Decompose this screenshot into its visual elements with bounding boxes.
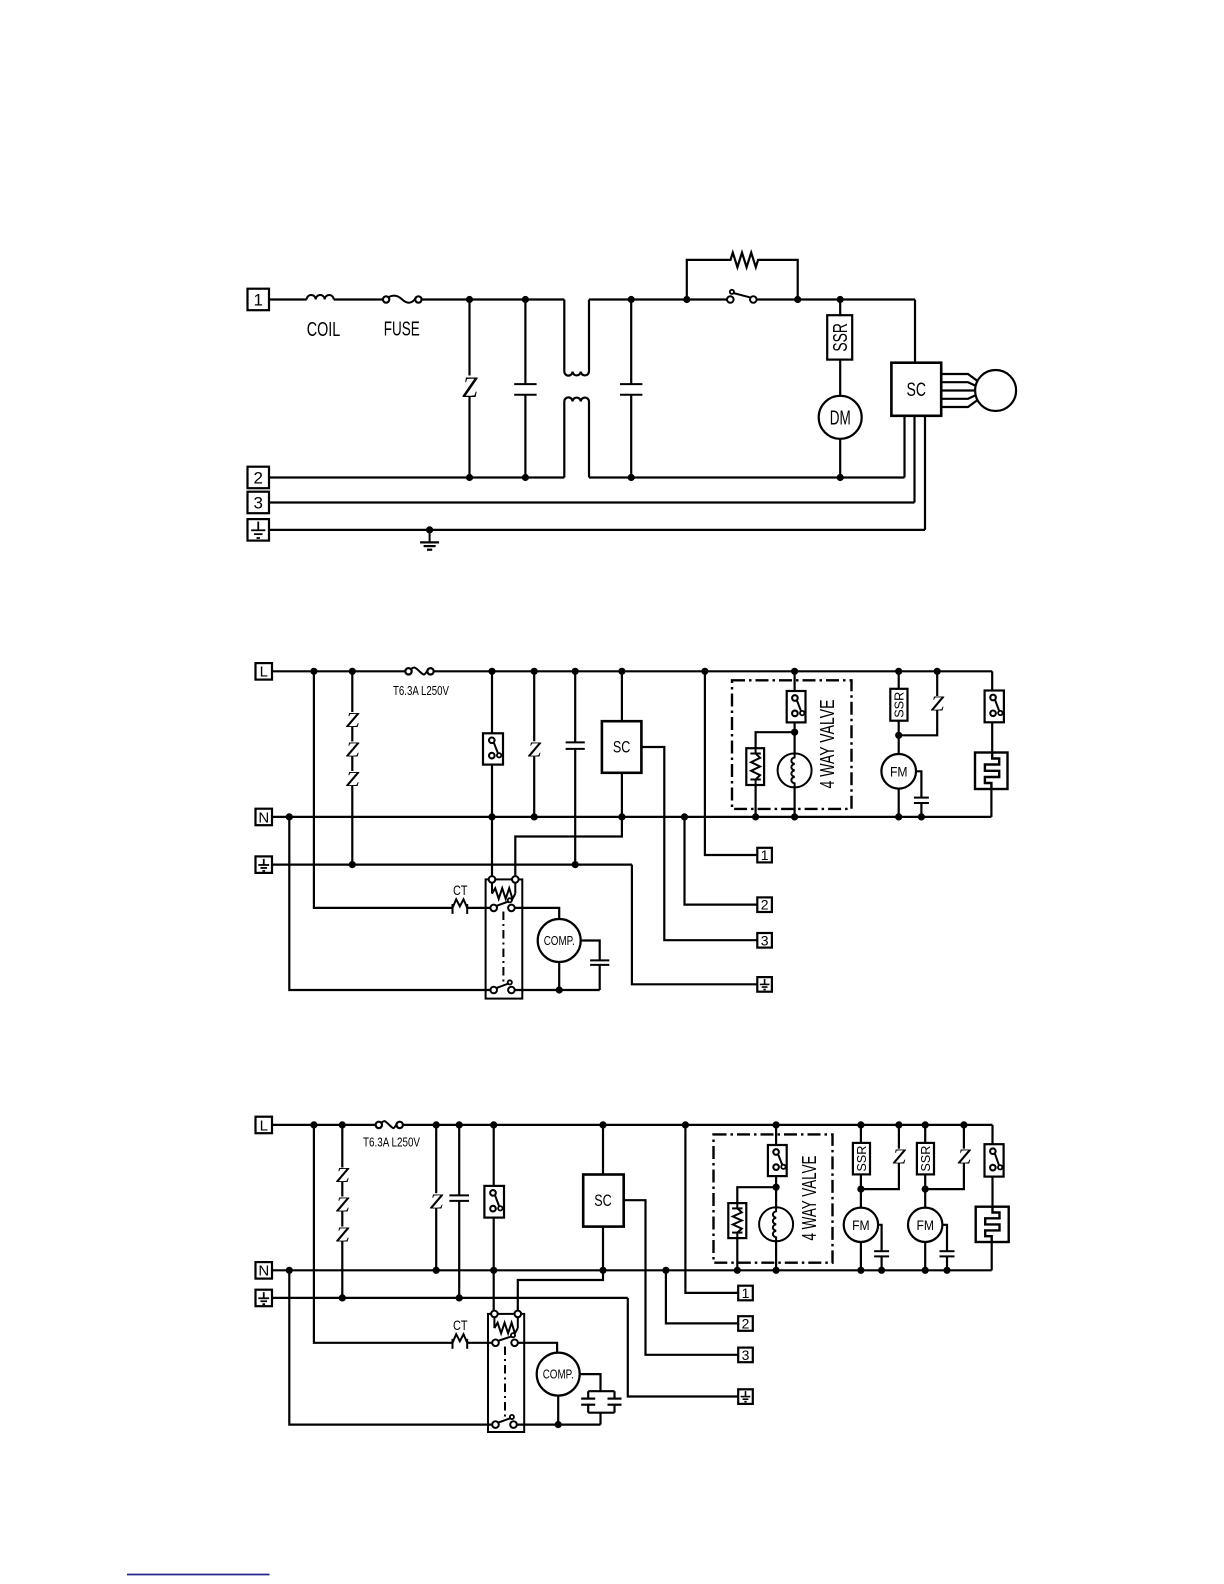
compressor capacitor plates	[590, 960, 609, 965]
svg-text:SSR: SSR	[830, 323, 852, 352]
valve resistor (middle)	[746, 748, 764, 785]
capacitor leads (middle)	[574, 671, 576, 864]
wire line 2 right of choke	[589, 476, 905, 478]
svg-text:4 WAY VALVE: 4 WAY VALVE	[817, 700, 839, 789]
svg-text:Z: Z	[336, 1193, 350, 1217]
varistor Z leads (middle)	[533, 671, 535, 817]
junction dot L at thermostat (bottom)	[490, 1121, 497, 1128]
valve resistor link wire	[756, 732, 795, 748]
junction dot thermostat at N (bottom)	[490, 1267, 497, 1274]
svg-text:SSR: SSR	[892, 692, 907, 718]
SC pin to line 3	[913, 416, 915, 503]
N bus wire (middle)	[272, 816, 991, 818]
varistor chain lead segments (bottom)	[341, 1125, 343, 1298]
SSR 2 (bottom)	[917, 1143, 934, 1175]
wire line 2 left of choke	[269, 476, 564, 478]
junction dot valve resistor at N	[752, 813, 759, 820]
compressor to return	[558, 962, 560, 990]
N bus wire (bottom)	[272, 1269, 992, 1271]
junction dot L at varistor Z right	[934, 668, 941, 675]
relay main contact (middle)	[490, 898, 514, 911]
svg-text:1: 1	[742, 1285, 750, 1301]
svg-text:DM: DM	[830, 407, 851, 429]
junction dot varistor bottom	[466, 474, 473, 481]
earth ground symbol	[420, 530, 439, 550]
junction dot FM1 at N	[857, 1267, 864, 1274]
stub terminal earth (middle)	[757, 977, 772, 992]
capacitor C2 leads	[630, 300, 632, 478]
junction dot FM at N	[895, 813, 902, 820]
choke lower winding	[564, 397, 589, 477]
capacitor plates (middle)	[566, 742, 585, 749]
svg-text:SC: SC	[613, 738, 631, 757]
terminal N (middle section)	[256, 809, 273, 827]
valve switch feed from L	[793, 671, 795, 691]
current transformer CT (middle)	[453, 899, 468, 914]
svg-text:FM: FM	[916, 1217, 934, 1233]
junction dot capacitor C2 top	[628, 296, 635, 303]
valve resistor to N (bottom)	[736, 1238, 738, 1270]
varistor chain lead segments	[351, 671, 353, 864]
svg-text:Z: Z	[346, 767, 360, 791]
junction dot capacitor at earth (bottom)	[456, 1294, 463, 1301]
SC bottom to N (middle)	[621, 773, 623, 817]
svg-text:Z: Z	[462, 371, 478, 404]
SSR 1 (bottom)	[853, 1143, 870, 1175]
valve solenoid coil (middle)	[778, 753, 812, 787]
SC right wire to terminal 3 stub (bottom)	[624, 1200, 739, 1355]
relay linkage dash-dot (middle)	[502, 912, 504, 986]
heater switch to heater box	[991, 722, 993, 752]
relay return wire left (middle)	[289, 817, 490, 990]
current transformer CT (bottom)	[453, 1334, 468, 1349]
svg-text:T6.3A L250V: T6.3A L250V	[393, 683, 449, 698]
heater to N end (middle)	[990, 789, 992, 817]
earth bus wire (middle)	[272, 863, 632, 865]
valve switch (bottom)	[768, 1145, 787, 1176]
junction dot SSR-FM-Z	[895, 732, 902, 739]
junction dot L at CT feed	[310, 668, 317, 675]
svg-text:Z: Z	[336, 1222, 350, 1246]
terminal earth (middle section)	[256, 856, 273, 873]
terminal 2 (top section)	[248, 467, 270, 489]
SSR (middle)	[890, 689, 907, 721]
junction dot varistor Z1 at N (bottom)	[433, 1267, 440, 1274]
svg-text:Z: Z	[346, 708, 360, 732]
CT wire into relay	[467, 907, 490, 909]
terminal 3 (top section)	[248, 492, 270, 514]
junction dot DM at line 2	[837, 474, 844, 481]
relay box (bottom)	[488, 1314, 524, 1432]
svg-text:2: 2	[742, 1316, 750, 1332]
junction dot at bypass left	[683, 296, 690, 303]
compressor COMP. (bottom)	[537, 1353, 580, 1396]
relay box (middle)	[486, 879, 523, 998]
svg-text:4 WAY VALVE: 4 WAY VALVE	[799, 1156, 821, 1241]
svg-text:1: 1	[254, 291, 263, 310]
junction dot N at relay return (bottom)	[286, 1267, 293, 1274]
heater element (middle)	[975, 753, 1008, 790]
relay right contact riser to N (bottom)	[518, 1270, 603, 1310]
relay coil and top contacts (middle)	[489, 876, 519, 899]
FM to N (middle)	[898, 789, 900, 817]
junction dot at bypass right	[794, 296, 801, 303]
junction dot FM2 at N	[922, 1267, 929, 1274]
relay lower contact (bottom)	[492, 1415, 517, 1428]
compressor capacitor wire	[581, 941, 600, 991]
fan motor (top section)	[975, 370, 1016, 411]
stub terminal 2 (middle)	[757, 897, 772, 913]
SC box (bottom)	[583, 1175, 624, 1227]
junction dot at capacitor C1 top	[522, 296, 529, 303]
svg-text:1: 1	[761, 847, 769, 863]
FM capacitor plates (middle)	[914, 798, 929, 803]
fuse T6.3A L250V (bottom)	[376, 1121, 403, 1128]
CT feed wire from L (bottom)	[314, 1125, 453, 1343]
svg-text:L: L	[260, 1117, 268, 1134]
svg-text:CT: CT	[453, 1317, 468, 1333]
junction dot L at SC	[618, 668, 625, 675]
SC bottom to N (bottom)	[602, 1227, 604, 1271]
fan motor FM 2 (bottom)	[908, 1208, 942, 1242]
fuse F1 (top section)	[383, 296, 422, 303]
4 way valve enclosure dash-dot box (bottom)	[714, 1134, 833, 1262]
junction dot terminal-2 feed at N (bottom)	[662, 1267, 669, 1274]
FM2 capacitor plates	[940, 1251, 955, 1256]
junction dot valve resistor at N (bottom)	[734, 1267, 741, 1274]
svg-text:Z: Z	[957, 1144, 971, 1168]
SSR U1 (top section)	[827, 315, 852, 359]
thermostat switch TH (middle)	[483, 733, 503, 764]
L corner down to heater switch (middle)	[991, 671, 993, 690]
heater element (bottom)	[976, 1207, 1009, 1242]
capacitor C1 leads	[524, 300, 526, 478]
capacitor leads (bottom)	[458, 1125, 460, 1298]
FM1 to N (bottom)	[860, 1242, 862, 1270]
junction dot thermostat at N	[488, 813, 495, 820]
terminal 1 feed wire (middle)	[705, 671, 757, 855]
stub terminal 3 (middle)	[757, 932, 772, 948]
FM2 to N (bottom)	[924, 1242, 926, 1270]
relay lower contact (middle)	[490, 980, 514, 993]
junction dot L at terminal-1 feed	[701, 668, 708, 675]
svg-text:CT: CT	[453, 882, 468, 898]
return wire to capacitor (bottom)	[517, 1423, 601, 1425]
valve switch to coil (bottom)	[775, 1176, 777, 1207]
valve resistor to N	[754, 785, 756, 817]
svg-text:SC: SC	[594, 1191, 612, 1210]
valve resistor link wire (bottom)	[737, 1187, 776, 1203]
wire coil to fuse	[334, 298, 384, 300]
earth stub feed (bottom)	[628, 1298, 738, 1397]
earth bus wire (bottom)	[272, 1297, 628, 1299]
junction dot capacitor C2 bottom	[628, 474, 635, 481]
junction dot L at SSR1 (bottom)	[857, 1121, 864, 1128]
SSR2 to FM2	[924, 1174, 926, 1207]
bypass resistor R1 with risers	[687, 253, 798, 300]
SC box (middle)	[602, 721, 642, 773]
footer rule	[127, 1574, 270, 1576]
stub terminal 2 (bottom)	[738, 1316, 753, 1332]
heater to N end (bottom)	[991, 1242, 993, 1270]
heater switch to heater box (bottom)	[991, 1177, 993, 1207]
CT wire into relay (bottom)	[467, 1342, 492, 1344]
CT feed wire from L	[314, 671, 453, 908]
svg-text:Z: Z	[931, 691, 945, 715]
valve solenoid coil (bottom)	[759, 1207, 793, 1241]
junction dot FM capacitor at N	[918, 813, 925, 820]
coil L1 (line filter coil)	[307, 295, 334, 300]
terminal 1 (top section)	[248, 289, 270, 311]
earth stub feed (middle)	[632, 865, 757, 985]
SSR1 to FM1	[860, 1174, 862, 1207]
junction dot below valve switch	[791, 729, 798, 736]
terminal 1 feed wire (bottom)	[685, 1125, 738, 1293]
svg-text:2: 2	[254, 469, 263, 488]
svg-text:Z: Z	[892, 1144, 906, 1168]
junction dot varistor chain at earth	[349, 861, 356, 868]
relay contact S1 (bypass switch)	[727, 290, 757, 303]
svg-text:SC: SC	[907, 380, 927, 401]
compressor to return (bottom)	[557, 1396, 559, 1425]
svg-text:SSR: SSR	[854, 1146, 869, 1172]
wire DM to line 2	[839, 439, 841, 478]
wire contact to compressor top (bottom)	[518, 1343, 557, 1353]
wire down into SC box	[914, 300, 916, 363]
relay main contact (bottom)	[492, 1333, 518, 1346]
valve coil to N	[793, 787, 795, 817]
relay return wire left (bottom)	[289, 1270, 492, 1424]
junction dot L at valve switch (bottom)	[773, 1121, 780, 1128]
relay right contact riser to N	[515, 817, 622, 876]
varistor Z1 leads (bottom)	[435, 1125, 437, 1270]
junction dot at earth symbol	[426, 526, 433, 533]
valve resistor (bottom)	[728, 1203, 746, 1238]
compressor twin capacitor	[580, 1374, 622, 1425]
fan motor FM 1 (bottom)	[844, 1208, 878, 1242]
varistor Z1 lead segments	[468, 300, 470, 478]
junction dot L at SC (bottom)	[599, 1121, 606, 1128]
terminal earth (top section)	[248, 519, 270, 541]
terminal 2 feed wire (bottom)	[666, 1270, 738, 1323]
wire choke to relay switch	[589, 298, 727, 300]
stub terminal 1 (bottom)	[738, 1285, 753, 1301]
L bus wire (middle)	[272, 670, 992, 672]
FM2 capacitor wire	[942, 1225, 947, 1271]
junction dot SSR1-FM1-Z2	[857, 1186, 864, 1193]
terminal 2 feed wire (middle)	[685, 817, 758, 905]
wire line 3	[269, 501, 915, 503]
valve switch to coil	[793, 722, 795, 753]
junction dot L at valve switch	[791, 668, 798, 675]
heater switch (middle)	[985, 691, 1004, 723]
svg-text:N: N	[258, 1263, 269, 1280]
SC box (top section)	[891, 363, 941, 416]
FM capacitor wire (middle)	[916, 771, 921, 817]
junction dot capacitor at earth	[572, 861, 579, 868]
junction dot at SSR branch	[837, 296, 844, 303]
junction dot L at varistor chain	[349, 668, 356, 675]
SSR1 feed from L (bottom)	[860, 1125, 862, 1143]
junction dot L at thermostat	[488, 668, 495, 675]
SC to motor lines	[941, 374, 978, 407]
terminal L (bottom section)	[256, 1117, 273, 1135]
SSR to FM junction	[898, 721, 900, 754]
SSR lead from top wire	[839, 300, 841, 316]
return wire to capacitor	[515, 989, 600, 991]
junction dot compressor at return (bottom)	[555, 1421, 562, 1428]
junction dot L at terminal-1 feed (bottom)	[682, 1121, 689, 1128]
junction dot SSR2-FM2-Z3	[922, 1186, 929, 1193]
svg-text:3: 3	[254, 494, 263, 513]
junction dot L at CT feed (bottom)	[310, 1121, 317, 1128]
SSR2 feed from L (bottom)	[924, 1125, 926, 1143]
junction dot L at Z2 (bottom)	[895, 1121, 902, 1128]
heater switch (bottom)	[985, 1144, 1004, 1176]
capacitor C1 plates	[514, 384, 536, 395]
thermostat to N and relay (bottom)	[493, 1218, 495, 1311]
SSR feed from L (middle)	[898, 671, 900, 689]
junction dot below valve switch (bottom)	[773, 1184, 780, 1191]
svg-text:Z: Z	[528, 738, 542, 762]
svg-text:Z: Z	[430, 1189, 444, 1213]
junction dot varistor chain at earth (bottom)	[339, 1294, 346, 1301]
junction dot valve coil at N (bottom)	[773, 1267, 780, 1274]
relay coil and top contacts (bottom)	[491, 1311, 521, 1334]
terminal N (bottom section)	[256, 1262, 273, 1280]
fan motor FM (middle)	[881, 754, 916, 789]
junction dot FM1 capacitor at N	[878, 1267, 885, 1274]
L bus wire (bottom)	[272, 1124, 993, 1126]
wire switch to SC corner	[757, 298, 915, 300]
junction dot N at relay return	[286, 813, 293, 820]
choke upper winding	[564, 300, 589, 376]
svg-text:T6.3A L250V: T6.3A L250V	[363, 1135, 420, 1150]
junction dot L at SSR2 (bottom)	[922, 1121, 929, 1128]
SC feed from L (bottom)	[602, 1125, 604, 1175]
compressor COMP.	[538, 919, 581, 962]
L corner down to heater switch (bottom)	[991, 1125, 993, 1144]
terminal earth (bottom section)	[256, 1290, 273, 1307]
SC feed from L (middle)	[621, 671, 623, 721]
junction dot SC at N (bottom)	[599, 1267, 606, 1274]
svg-text:L: L	[260, 664, 268, 681]
junction dot L at Z3 (bottom)	[960, 1121, 967, 1128]
svg-text:3: 3	[742, 1347, 750, 1363]
junction dot varistor Z at N	[531, 813, 538, 820]
svg-text:3: 3	[761, 932, 769, 948]
junction dot L at varistor Z1 (bottom)	[433, 1121, 440, 1128]
junction dot compressor at return	[556, 986, 563, 993]
svg-text:Z: Z	[336, 1163, 350, 1187]
svg-text:FUSE: FUSE	[384, 319, 420, 341]
svg-text:FM: FM	[852, 1217, 870, 1233]
junction dot valve coil at N	[791, 813, 798, 820]
svg-text:Z: Z	[346, 737, 360, 761]
thermostat switch TH (bottom)	[484, 1186, 504, 1218]
junction dot L at SSR	[895, 668, 902, 675]
thermostat feed from L (bottom)	[493, 1125, 495, 1186]
wire contact to compressor top	[515, 908, 560, 919]
capacitor C2 plates	[620, 384, 642, 395]
junction dot SC at N	[618, 813, 625, 820]
svg-text:COMP.: COMP.	[543, 1367, 574, 1382]
drain motor DM	[819, 396, 862, 439]
junction dot L at capacitor (bottom)	[456, 1121, 463, 1128]
terminal L (middle section)	[256, 663, 273, 681]
4 way valve enclosure dash-dot box (middle)	[732, 680, 852, 809]
svg-text:2: 2	[761, 897, 769, 913]
svg-text:FM: FM	[890, 763, 908, 779]
junction dot L at varistor chain (bottom)	[339, 1121, 346, 1128]
stub terminal 1 (middle)	[757, 847, 772, 863]
svg-text:SSR: SSR	[918, 1146, 933, 1172]
wire SSR to DM	[839, 360, 841, 396]
relay linkage dash-dot (bottom)	[504, 1347, 506, 1420]
wire from terminal 1 to coil	[269, 298, 307, 300]
stub terminal 3 (bottom)	[738, 1347, 753, 1363]
varistor Z right leads (middle)	[899, 671, 938, 735]
junction dot capacitor C1 bottom	[522, 474, 529, 481]
valve switch feed from L (bottom)	[775, 1125, 777, 1145]
junction dot terminal-2 feed at N	[681, 813, 688, 820]
SC pin to line 2	[903, 416, 905, 478]
svg-text:N: N	[258, 809, 269, 826]
FM1 capacitor wire	[878, 1225, 882, 1271]
thermostat to N and relay	[491, 765, 493, 877]
wire earth line	[269, 529, 925, 531]
varistor Z3 leads (bottom)	[925, 1125, 964, 1189]
junction dot at varistor top	[466, 296, 473, 303]
SC right wire to terminal 3 stub	[641, 747, 757, 940]
svg-text:COIL: COIL	[307, 319, 341, 341]
varistor Z2 leads (bottom)	[861, 1125, 899, 1189]
SC pin to earth line	[924, 416, 926, 530]
junction dot L at capacitor	[572, 668, 579, 675]
FM1 capacitor plates	[874, 1251, 889, 1256]
junction dot L at varistor Z	[531, 668, 538, 675]
wire fuse to choke, top line	[421, 298, 564, 300]
valve coil to N (bottom)	[775, 1241, 777, 1270]
stub terminal earth (bottom)	[738, 1389, 753, 1404]
capacitor plates (bottom)	[449, 1195, 469, 1201]
thermostat feed from L	[491, 671, 493, 733]
junction dot FM2 capacitor at N	[943, 1267, 950, 1274]
svg-text:COMP.: COMP.	[544, 933, 575, 948]
fuse T6.3A L250V (middle)	[405, 668, 433, 675]
valve switch (middle)	[787, 691, 806, 722]
